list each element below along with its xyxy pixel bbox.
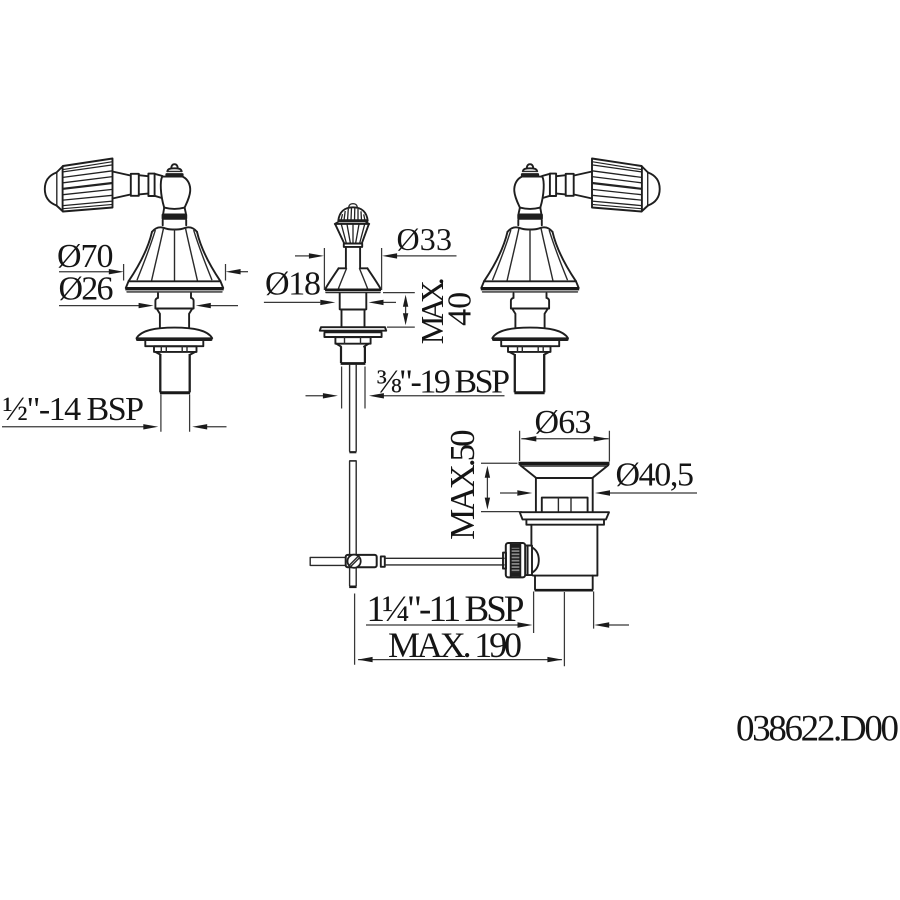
drain funnel — [520, 465, 608, 478]
horizontal actuating rod (left part) — [310, 557, 345, 565]
lock nut — [335, 337, 370, 344]
dimension O63 — [520, 404, 610, 462]
extension lines below drain — [355, 592, 594, 667]
deck washer flange — [136, 328, 213, 347]
dimension O18 — [264, 266, 396, 306]
lift rod lower section (after break) — [350, 460, 357, 462]
valve bonnet with finial — [161, 164, 190, 225]
washer dark band — [324, 331, 383, 333]
valve handle assembly (right tap, mirrored) — [481, 159, 660, 393]
drain flange plate — [520, 512, 609, 519]
svg-text:40: 40 — [442, 292, 479, 326]
drain rim top — [519, 462, 610, 465]
escutcheon neck and collar — [155, 293, 193, 327]
dimension MAX.50 — [443, 429, 522, 539]
handle lever neck and rings — [113, 172, 163, 199]
dimension 3/8-19 BSP — [306, 364, 511, 409]
svg-text:Ø18: Ø18 — [265, 266, 321, 303]
svg-text:038622.D00: 038622.D00 — [736, 708, 899, 749]
clevis block — [346, 555, 377, 567]
rod collar — [381, 556, 385, 566]
flared base — [339, 267, 368, 269]
threaded shank 3/8 — [341, 347, 365, 363]
crystal handle knob — [45, 159, 113, 212]
pop-up drain waste assembly — [503, 463, 610, 590]
dimension O26 — [59, 271, 239, 309]
lift rod knob cap — [349, 204, 357, 207]
dimension O70 — [57, 238, 248, 281]
washer plate — [320, 327, 386, 331]
dimension 1/2-14 BSP — [2, 391, 227, 432]
washer lower ring — [324, 333, 381, 337]
knob shoulder lip — [335, 222, 369, 224]
drain body — [531, 525, 597, 576]
knob dark band — [338, 219, 369, 222]
dimension MAX.40 — [383, 277, 479, 344]
dimension O33 — [295, 221, 457, 290]
bell escutcheon — [125, 227, 223, 292]
dimension 1 1/4-11 BSP — [366, 589, 629, 630]
knurled adjuster nut — [506, 543, 525, 577]
valve handle assembly (left tap) — [45, 159, 224, 393]
tail pipe — [535, 576, 593, 590]
connector dome into body — [532, 547, 539, 572]
svg-text:Ø33: Ø33 — [397, 221, 453, 257]
drain flange ring — [526, 520, 604, 525]
dimension MAX. 190 — [358, 625, 563, 665]
svg-text:MAX.50: MAX.50 — [443, 429, 482, 539]
rod end collar at knurl — [503, 553, 506, 569]
horizontal actuating rod (right part) — [385, 558, 504, 565]
O18 shank — [340, 293, 367, 327]
svg-text:Ø26: Ø26 — [59, 271, 114, 308]
drain throat — [536, 478, 593, 512]
knob base collar — [344, 244, 362, 247]
plug cage windows — [542, 498, 588, 512]
clevis screw — [348, 555, 361, 568]
pop-up lift rod assembly (middle) — [310, 204, 504, 587]
svg-text:MAX. 190: MAX. 190 — [388, 625, 522, 665]
rod stem — [346, 247, 360, 268]
lift rod knob dome — [338, 207, 367, 220]
knurl cap cylinder — [525, 546, 532, 576]
dimension O40,5 — [500, 457, 697, 496]
knob faceted body — [335, 224, 369, 243]
svg-text:½"-14 BSP: ½"-14 BSP — [3, 391, 145, 428]
threaded shank — [160, 354, 190, 393]
svg-text:⅜"-19 BSP: ⅜"-19 BSP — [376, 364, 510, 401]
mounting nut — [154, 346, 197, 354]
lift rod upper section — [350, 365, 357, 452]
svg-text:Ø63: Ø63 — [535, 404, 592, 441]
svg-text:Ø40,5: Ø40,5 — [616, 457, 695, 494]
svg-text:Ø70: Ø70 — [57, 238, 114, 275]
svg-text:1¼"-11 BSP: 1¼"-11 BSP — [367, 589, 525, 630]
